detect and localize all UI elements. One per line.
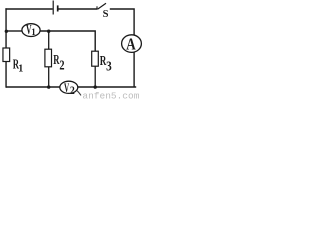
node junction dot bottom wire / R3 (94, 85, 97, 88)
wire battery to switch (58, 8, 97, 10)
ammeter A ellipse (122, 35, 142, 53)
wire V1 to R3 corner and R3 top lead (40, 31, 95, 51)
node junction dot left rail / V1 (5, 30, 8, 33)
wire right rail lower (133, 52, 135, 86)
svg-text:S: S (103, 9, 109, 20)
svg-text:1: 1 (18, 63, 23, 74)
wire bottom-left segment (6, 86, 60, 88)
svg-text:1: 1 (31, 27, 36, 37)
wire R2 top lead (48, 31, 50, 49)
battery long plate (52, 1, 54, 15)
node junction dot V1 wire / R2 branch (47, 30, 50, 33)
resistor R1 box (3, 48, 10, 62)
switch contact tick (96, 6, 98, 9)
resistor R2 box (45, 49, 52, 67)
wire left rail lower (5, 61, 7, 87)
battery short plate (57, 5, 59, 11)
wire bottom-right segment (78, 86, 136, 88)
svg-text:V: V (64, 82, 69, 96)
voltmeter V1 ellipse (22, 24, 40, 37)
svg-text:3: 3 (106, 59, 112, 74)
wire R3 bottom lead (94, 66, 96, 87)
node junction dot bottom wire / R2 (47, 85, 50, 88)
voltmeter V2 ellipse (60, 81, 78, 93)
wire left rail to V1 (6, 30, 22, 32)
wire R2 bottom lead (48, 67, 50, 87)
switch blade (98, 3, 107, 9)
wire left rail upper (5, 8, 7, 48)
wire switch to top-right corner and right rail upper (110, 9, 134, 35)
resistor R3 box (92, 51, 99, 66)
svg-text:A: A (126, 35, 136, 54)
wire top-left segment (5, 8, 52, 10)
svg-text:2: 2 (59, 57, 64, 73)
svg-text:anfen5.com: anfen5.com (82, 90, 139, 100)
artifact mark (scan tail near V2) (77, 91, 81, 96)
svg-text:2: 2 (70, 84, 75, 97)
